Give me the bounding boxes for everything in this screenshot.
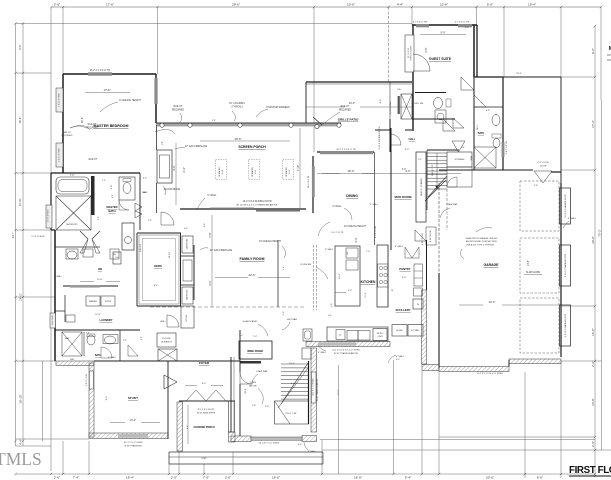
svg-text:4'-4": 4'-4" [397,2,403,6]
svg-text:20'-0": 20'-0" [486,475,494,479]
svg-text:36": 36" [392,288,394,291]
svg-text:8 X 8: 8 X 8 [289,170,291,174]
svg-text:7'-0": 7'-0" [203,475,209,479]
svg-text:2'-0 X 7'-1.2 TR: 2'-0 X 7'-1.2 TR [331,232,344,234]
svg-text:2'-0 X 3'-0 SH W: 2'-0 X 3'-0 SH W [31,236,45,238]
svg-text:RAIL HT: RAIL HT [174,105,183,108]
svg-text:3'-0 X 4'-0" DH: 3'-0 X 4'-0" DH [413,22,428,24]
svg-text:2'-0": 2'-0" [171,475,177,479]
svg-text:GARAGE: GARAGE [484,263,500,267]
svg-text:FRENCH DOORS: FRENCH DOORS [411,45,413,60]
svg-text:SEAT: SEAT [470,155,473,161]
svg-text:SCREEN PORCH: SCREEN PORCH [238,145,266,149]
svg-text:30'-0": 30'-0" [591,236,595,244]
svg-text:8'-0": 8'-0" [204,223,206,227]
svg-text:STEP: STEP [201,458,207,460]
svg-text:2'-8": 2'-8" [86,333,90,335]
svg-text:MUD ROOM: MUD ROOM [395,195,412,199]
svg-text:4' PKT DOOR: 4' PKT DOOR [430,229,432,241]
svg-text:6" WALL: 6" WALL [568,217,577,220]
svg-text:FLUSH BM: FLUSH BM [300,264,311,266]
svg-text:8'-6": 8'-6" [173,165,176,170]
svg-text:SPEAKER: SPEAKER [218,167,221,177]
svg-text:LAUNDRY: LAUNDRY [99,318,112,322]
svg-text:WARDROBE: WARDROBE [186,238,189,249]
svg-text:4' PKT DOOR: 4' PKT DOOR [422,232,424,244]
svg-text:OVEN: OVEN [377,336,383,338]
svg-text:HERS: HERS [154,264,162,268]
svg-text:REQUIRED: REQUIRED [86,128,98,130]
svg-text:W 36" TRANSOM ABOVE: W 36" TRANSOM ABOVE [316,378,319,401]
svg-text:PANTRY: PANTRY [399,267,410,271]
svg-text:9'-6": 9'-6" [425,47,428,52]
svg-text:FLOOR ABOVE: FLOOR ABOVE [164,188,181,191]
svg-text:2'-0": 2'-0" [402,277,407,279]
svg-text:6" WALL: 6" WALL [396,355,405,358]
svg-text:20.2' 8' 4' X 3.4' 4'-0" FIXED: 20.2' 8' 4' X 3.4' 4'-0" FIXED [477,373,503,375]
svg-text:8'-0": 8'-0" [106,396,108,401]
svg-text:WASHER: WASHER [89,300,98,303]
svg-text:BATH: BATH [95,354,102,357]
svg-text:17R @ 7 3/4": 17R @ 7 3/4" [285,413,297,415]
svg-text:8'-4": 8'-4" [154,285,159,287]
svg-text:16'-0": 16'-0" [130,419,136,422]
svg-text:5'-6": 5'-6" [98,216,100,220]
svg-text:4'-6": 4'-6" [331,303,333,307]
svg-text:RAIL HT: RAIL HT [63,131,72,134]
svg-text:4'-0": 4'-0" [184,228,188,230]
svg-text:16R @ 7.75": 16R @ 7.75" [432,164,434,176]
svg-text:16'-0 X 8'-0 SLIDING DOOR: 16'-0 X 8'-0 SLIDING DOOR [243,201,272,203]
svg-text:2'-6": 2'-6" [54,475,60,479]
svg-text:8 X 8: 8 X 8 [255,170,257,174]
svg-text:9'-0 X 8'-0 GARAGE DOOR: 9'-0 X 8'-0 GARAGE DOOR [564,253,567,277]
svg-text:W 96" TRANSOM ABOVE: W 96" TRANSOM ABOVE [334,352,359,355]
svg-text:MASTER: MASTER [107,205,118,209]
svg-text:26.2' 4' X 3.4'-0" TR: 26.2' 4' X 3.4'-0" TR [336,149,356,151]
svg-text:2'-8": 2'-8" [461,147,465,149]
svg-text:5'-0": 5'-0" [465,27,470,29]
svg-text:8'-0": 8'-0" [355,237,358,242]
svg-text:4'-0": 4'-0" [298,444,302,446]
svg-text:W 36" TRANSOMS: W 36" TRANSOMS [124,445,142,448]
svg-text:18'-0": 18'-0" [348,169,355,173]
svg-text:(TYPICAL): (TYPICAL) [231,106,242,109]
svg-text:17'-0": 17'-0" [365,292,367,298]
svg-text:17'-6": 17'-6" [106,2,114,6]
svg-text:7'-6": 7'-6" [252,405,257,407]
svg-text:20.2' 8' X 3.4' 8' 1.2'-0" FIX: 20.2' 8' X 3.4' 8' 1.2'-0" FIXED [332,350,360,352]
svg-text:9'-6": 9'-6" [591,48,595,54]
svg-text:ELEVATOR: ELEVATOR [161,341,172,344]
svg-text:16'-0": 16'-0" [354,475,362,479]
svg-text:STUDY: STUDY [128,396,138,400]
svg-text:6'-0": 6'-0" [537,475,543,479]
svg-text:2'-8": 2'-8" [534,185,538,187]
svg-text:9' CEILING HEIGHT: 9' CEILING HEIGHT [119,99,141,102]
svg-text:34'-7": 34'-7" [11,232,15,239]
svg-text:10" COLUMNS: 10" COLUMNS [229,103,245,105]
svg-text:9'-0 X 8'-0 GARAGE DOOR: 9'-0 X 8'-0 GARAGE DOOR [564,194,567,218]
svg-text:8 X 8: 8 X 8 [222,170,224,174]
svg-text:30: 30 [417,304,419,306]
svg-text:SHEETROCK GARAGE CEILING: SHEETROCK GARAGE CEILING [466,237,498,240]
svg-text:7'-4": 7'-4" [102,180,106,182]
svg-text:5'-6": 5'-6" [283,311,285,316]
svg-text:W/ 45 SIDELIGHTS: W/ 45 SIDELIGHTS [197,412,216,414]
svg-text:SPEAKER: SPEAKER [251,167,254,177]
svg-text:3'-0": 3'-0" [418,159,422,161]
svg-text:SLAB SLOPE: SLAB SLOPE [526,271,541,274]
svg-text:8'-0 X 8'-0 DOOR: 8'-0 X 8'-0 DOOR [198,409,215,411]
svg-text:26.2 4 3.4 TR: 26.2 4 3.4 TR [308,175,310,188]
svg-text:10.2' 8' 2.1'-0" FIXED: 10.2' 8' 2.1'-0" FIXED [124,442,144,444]
svg-text:USE A 5/8" TYPE X GYPSUM: USE A 5/8" TYPE X GYPSUM [466,243,494,246]
svg-text:16'-8": 16'-8" [591,398,595,406]
svg-text:6" WALL: 6" WALL [395,245,404,248]
svg-text:4'-0": 4'-0" [402,169,407,171]
svg-text:5'-6": 5'-6" [209,232,212,237]
svg-text:16'-8": 16'-8" [591,328,595,336]
svg-text:ABOVE: ABOVE [249,385,257,388]
svg-text:42" GAS FIREPLACE: 42" GAS FIREPLACE [185,145,208,148]
svg-text:3'-0 X 4'-0" DH: 3'-0 X 4'-0" DH [455,22,470,24]
svg-text:HALL: HALL [409,138,416,141]
svg-text:7'-4": 7'-4" [70,175,75,177]
svg-text:5'-6": 5'-6" [486,110,491,112]
svg-text:4'-0": 4'-0" [328,315,332,317]
svg-text:5'-0": 5'-0" [487,2,493,6]
svg-text:10' CEILING HEIGHT: 10' CEILING HEIGHT [344,226,367,228]
svg-text:9'-0": 9'-0" [202,383,207,385]
svg-text:SHELVES: SHELVES [140,243,142,252]
svg-text:9'-0": 9'-0" [112,194,114,198]
svg-text:FUTURE: FUTURE [162,338,171,340]
svg-text:AS PER NCRBC 2018 SECTION: AS PER NCRBC 2018 SECTION [466,240,497,243]
svg-text:5'-4": 5'-4" [162,141,164,145]
svg-text:3'-0 X 3'-0 SH: 3'-0 X 3'-0 SH [52,314,54,325]
svg-text:17'-2": 17'-2" [338,389,340,395]
svg-text:GRILLE PATIO: GRILLE PATIO [338,118,359,122]
svg-text:16'-4": 16'-4" [126,475,134,479]
svg-text:BATH: BATH [108,209,115,213]
svg-text:8'-0": 8'-0" [209,280,212,285]
svg-text:32'-0": 32'-0" [349,102,355,105]
svg-text:6" WALL: 6" WALL [333,205,343,208]
svg-text:6" WALL: 6" WALL [370,203,379,206]
svg-text:DINING: DINING [346,194,358,198]
svg-text:22'-0": 22'-0" [248,273,255,277]
svg-text:OPEN: OPEN [250,382,257,384]
svg-text:29'-6": 29'-6" [234,137,241,141]
svg-text:SPEAKER: SPEAKER [285,167,288,177]
svg-text:GUEST SUITE: GUEST SUITE [429,57,452,61]
svg-text:9'-6": 9'-6" [18,44,22,49]
svg-text:BOOKS: BOOKS [186,314,188,321]
svg-text:7'-0": 7'-0" [239,335,243,337]
svg-text:12'-8": 12'-8" [440,2,448,6]
svg-text:19'-4": 19'-4" [516,73,522,75]
svg-text:BATH: BATH [478,132,485,135]
svg-text:STAIR RAIL: STAIR RAIL [446,203,459,206]
svg-text:9'-6": 9'-6" [441,32,446,35]
svg-text:(3) SLD. WALL: (3) SLD. WALL [389,100,392,115]
svg-text:2'-8": 2'-8" [123,340,127,342]
svg-text:6" WALL: 6" WALL [308,450,317,453]
svg-text:8'-4": 8'-4" [380,99,382,104]
svg-text:16'-6": 16'-6" [18,117,22,124]
svg-text:4'-0 X 5'-0 SH: 4'-0 X 5'-0 SH [375,226,377,238]
svg-text:2'-4": 2'-4" [148,220,152,222]
svg-text:LIN.: LIN. [397,89,401,91]
svg-text:5'-0 X 5'-0 FIXED: 5'-0 X 5'-0 FIXED [59,147,61,162]
svg-text:SHR: SHR [70,359,75,361]
svg-text:17'-4": 17'-4" [591,120,595,128]
svg-text:PHANTOM SCREENS: PHANTOM SCREENS [266,106,290,109]
svg-text:(5) 2'-8" X 5'-0" FIXED: (5) 2'-8" X 5'-0" FIXED [259,443,280,445]
svg-text:WINE ROOM: WINE ROOM [247,349,263,353]
svg-text:7'-4": 7'-4" [73,475,79,479]
svg-text:17'-6": 17'-6" [103,88,110,92]
svg-text:2'-8": 2'-8" [212,120,216,122]
svg-text:7'-10": 7'-10" [297,165,300,171]
svg-text:COVERED PORCH: COVERED PORCH [193,426,214,429]
svg-text:2'-8 X 5'-0 SH: 2'-8 X 5'-0 SH [506,141,508,154]
svg-text:7'-0": 7'-0" [253,336,257,338]
svg-text:2'-6": 2'-6" [591,361,595,367]
svg-text:WARDROBE: WARDROBE [186,289,189,300]
svg-text:4'-0": 4'-0" [265,406,270,408]
svg-text:10'-0": 10'-0" [339,273,341,279]
svg-text:14'-8": 14'-8" [528,260,530,266]
svg-text:15'-0": 15'-0" [289,363,295,365]
svg-text:10'-0": 10'-0" [347,2,355,6]
svg-text:GRILL: GRILL [160,321,167,323]
svg-text:4'-10": 4'-10" [111,184,113,189]
svg-text:RAIL HT: RAIL HT [89,158,98,161]
svg-text:HALL: HALL [142,191,148,194]
svg-text:7'-0": 7'-0" [366,251,371,253]
svg-text:9'-0 X 8'-0 GARAGE DOOR: 9'-0 X 8'-0 GARAGE DOOR [564,313,567,337]
svg-text:STAIR RAIL: STAIR RAIL [256,370,269,373]
svg-text:20'-0": 20'-0" [489,300,496,304]
svg-text:FIRST FLOOR P: FIRST FLOOR P [569,465,611,476]
svg-text:10'-10": 10'-10" [18,198,22,206]
svg-text:GLASS PANEL: GLASS PANEL [243,320,259,323]
svg-text:KITCHEN: KITCHEN [361,280,376,284]
svg-text:4'-0": 4'-0" [291,383,296,385]
svg-text:STORAGE: STORAGE [454,158,465,161]
svg-text:10'-8": 10'-8" [245,388,247,394]
svg-text:SCULLERY: SCULLERY [396,308,411,312]
svg-text:RAIL HT: RAIL HT [88,123,97,126]
svg-text:W.I.C.: W.I.C. [477,124,479,130]
svg-text:2'-0": 2'-0" [225,475,231,479]
svg-text:4'-4": 4'-4" [19,439,23,445]
svg-text:REQUIRED: REQUIRED [62,135,73,137]
svg-text:64" WALL: 64" WALL [411,329,419,332]
svg-text:2'-8" 4 LITE: 2'-8" 4 LITE [537,162,549,164]
svg-text:29'-6": 29'-6" [232,2,240,6]
svg-text:6" WALL: 6" WALL [108,356,117,359]
svg-text:FAMILY ROOM: FAMILY ROOM [240,257,265,261]
svg-text:5'-0 X 5'-0 FIXED: 5'-0 X 5'-0 FIXED [59,92,61,107]
svg-text:METRO: METRO [377,333,384,335]
svg-text:POWD. RM.: POWD. RM. [412,103,424,105]
svg-text:2'-0": 2'-0" [591,441,595,447]
svg-text:26.2' 4' X 3.4'-0" TR: 26.2' 4' X 3.4'-0" TR [90,70,111,72]
svg-text:4'-6": 4'-6" [143,178,147,180]
svg-text:FOYER: FOYER [199,361,210,365]
svg-text:18'-10": 18'-10" [19,394,23,403]
svg-text:19'-4": 19'-4" [528,2,536,6]
svg-text:16'-10": 16'-10" [169,252,171,259]
svg-text:9'-0": 9'-0" [141,336,143,340]
svg-text:WET BAR: WET BAR [287,318,297,321]
svg-text:REQUIRED: REQUIRED [339,110,351,112]
svg-text:9'-8 X 8'-0 FRENCH DOOR: 9'-8 X 8'-0 FRENCH DOOR [379,126,381,150]
svg-text:DRYER: DRYER [105,301,112,303]
svg-text:4'-0": 4'-0" [396,359,400,361]
svg-text:MASTER BEDROOM: MASTER BEDROOM [94,124,129,128]
svg-text:AT 120 W 8'-0 X 2'-0 TRANSOMS: AT 120 W 8'-0 X 2'-0 TRANSOMS ABOVE [237,204,278,207]
svg-text:6" WALL: 6" WALL [318,351,327,354]
svg-text:5'-6": 5'-6" [283,266,285,271]
svg-text:5'-4": 5'-4" [405,475,411,479]
svg-text:W/ REF: W/ REF [396,330,403,332]
svg-text:4'-0": 4'-0" [405,149,410,151]
svg-text:16'-6": 16'-6" [80,117,84,124]
svg-text:12'-6": 12'-6" [95,314,101,316]
svg-text:6" WALL: 6" WALL [208,194,218,197]
svg-text:4'-6": 4'-6" [348,290,353,292]
svg-text:5'-0 X 5'-0 FIXED: 5'-0 X 5'-0 FIXED [48,209,50,223]
svg-text:TMLS: TMLS [0,449,42,469]
svg-text:16'-0": 16'-0" [272,475,280,479]
svg-text:RAIL HT: RAIL HT [341,105,350,108]
svg-text:5'-8 X 5'-0 SH: 5'-8 X 5'-0 SH [86,373,88,386]
svg-text:75'-2": 75'-2" [598,229,602,237]
svg-text:2'-6": 2'-6" [54,2,60,6]
svg-text:6" WALL: 6" WALL [54,275,63,278]
svg-text:BENCH / CUBBIES: BENCH / CUBBIES [421,178,423,196]
svg-text:HIS: HIS [98,268,103,271]
svg-text:16'-0": 16'-0" [97,279,103,281]
svg-text:SHR ENTRY: SHR ENTRY [66,224,78,226]
svg-text:6" WALL: 6" WALL [325,248,334,251]
svg-text:30.2' 8' 2.1'-0 FIXED: 30.2' 8' 2.1'-0 FIXED [313,378,315,396]
svg-text:42" GAS FIREPLACE: 42" GAS FIREPLACE [210,249,233,252]
svg-text:DOOR: DOOR [540,165,547,167]
svg-text:DW: DW [347,252,349,255]
svg-text:14'-2": 14'-2" [183,167,186,173]
svg-text:REQUIRED: REQUIRED [172,110,184,112]
svg-text:24": 24" [339,335,342,337]
